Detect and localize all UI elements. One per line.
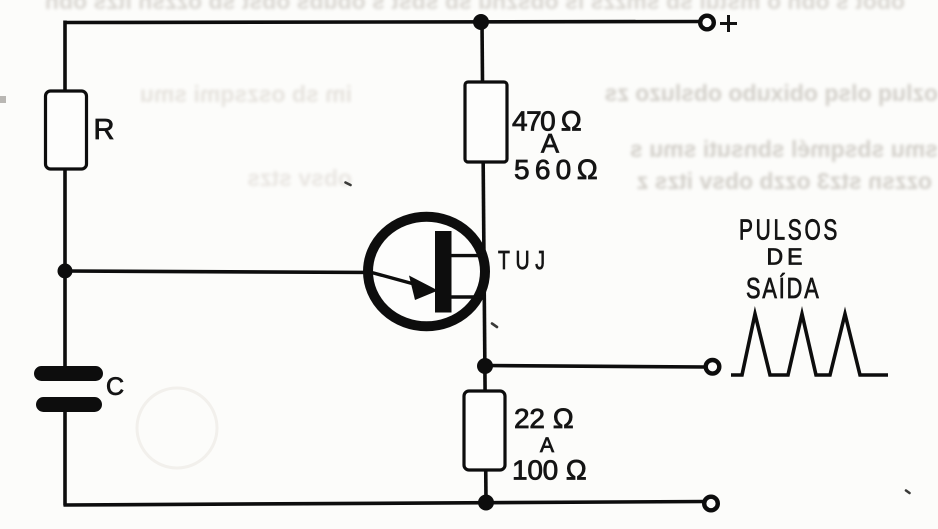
svg-text:R: R	[94, 114, 115, 146]
svg-text:SAÍDA: SAÍDA	[746, 272, 821, 305]
svg-text:C: C	[106, 373, 124, 401]
svg-text:22 Ω: 22 Ω	[514, 403, 574, 434]
svg-text:560Ω: 560Ω	[514, 154, 598, 185]
svg-text:smu sbsqmél sbnsuti smu s: smu sbsqmél sbnsuti smu s	[630, 136, 938, 162]
svg-text:im sb oszsqmi smu: im sb oszsqmi smu	[140, 81, 352, 107]
svg-text:obot s obn o mstul sb smzzs ls: obot s obn o mstul sb smzzs ls obsznu sb…	[45, 0, 905, 14]
svg-text:100 Ω: 100 Ω	[512, 455, 587, 486]
svg-text:obsv stzs: obsv stzs	[247, 165, 352, 191]
svg-text:TUJ: TUJ	[498, 245, 551, 274]
svg-text:ozluq olsq obixubo obsluzo zs: ozluq olsq obixubo obsluzo zs	[605, 80, 938, 106]
svg-text:ozzsn stz3 ozzb obsv itzs z: ozzsn stz3 ozzb obsv itzs z	[637, 168, 932, 194]
svg-text:PULSOS: PULSOS	[739, 214, 840, 246]
